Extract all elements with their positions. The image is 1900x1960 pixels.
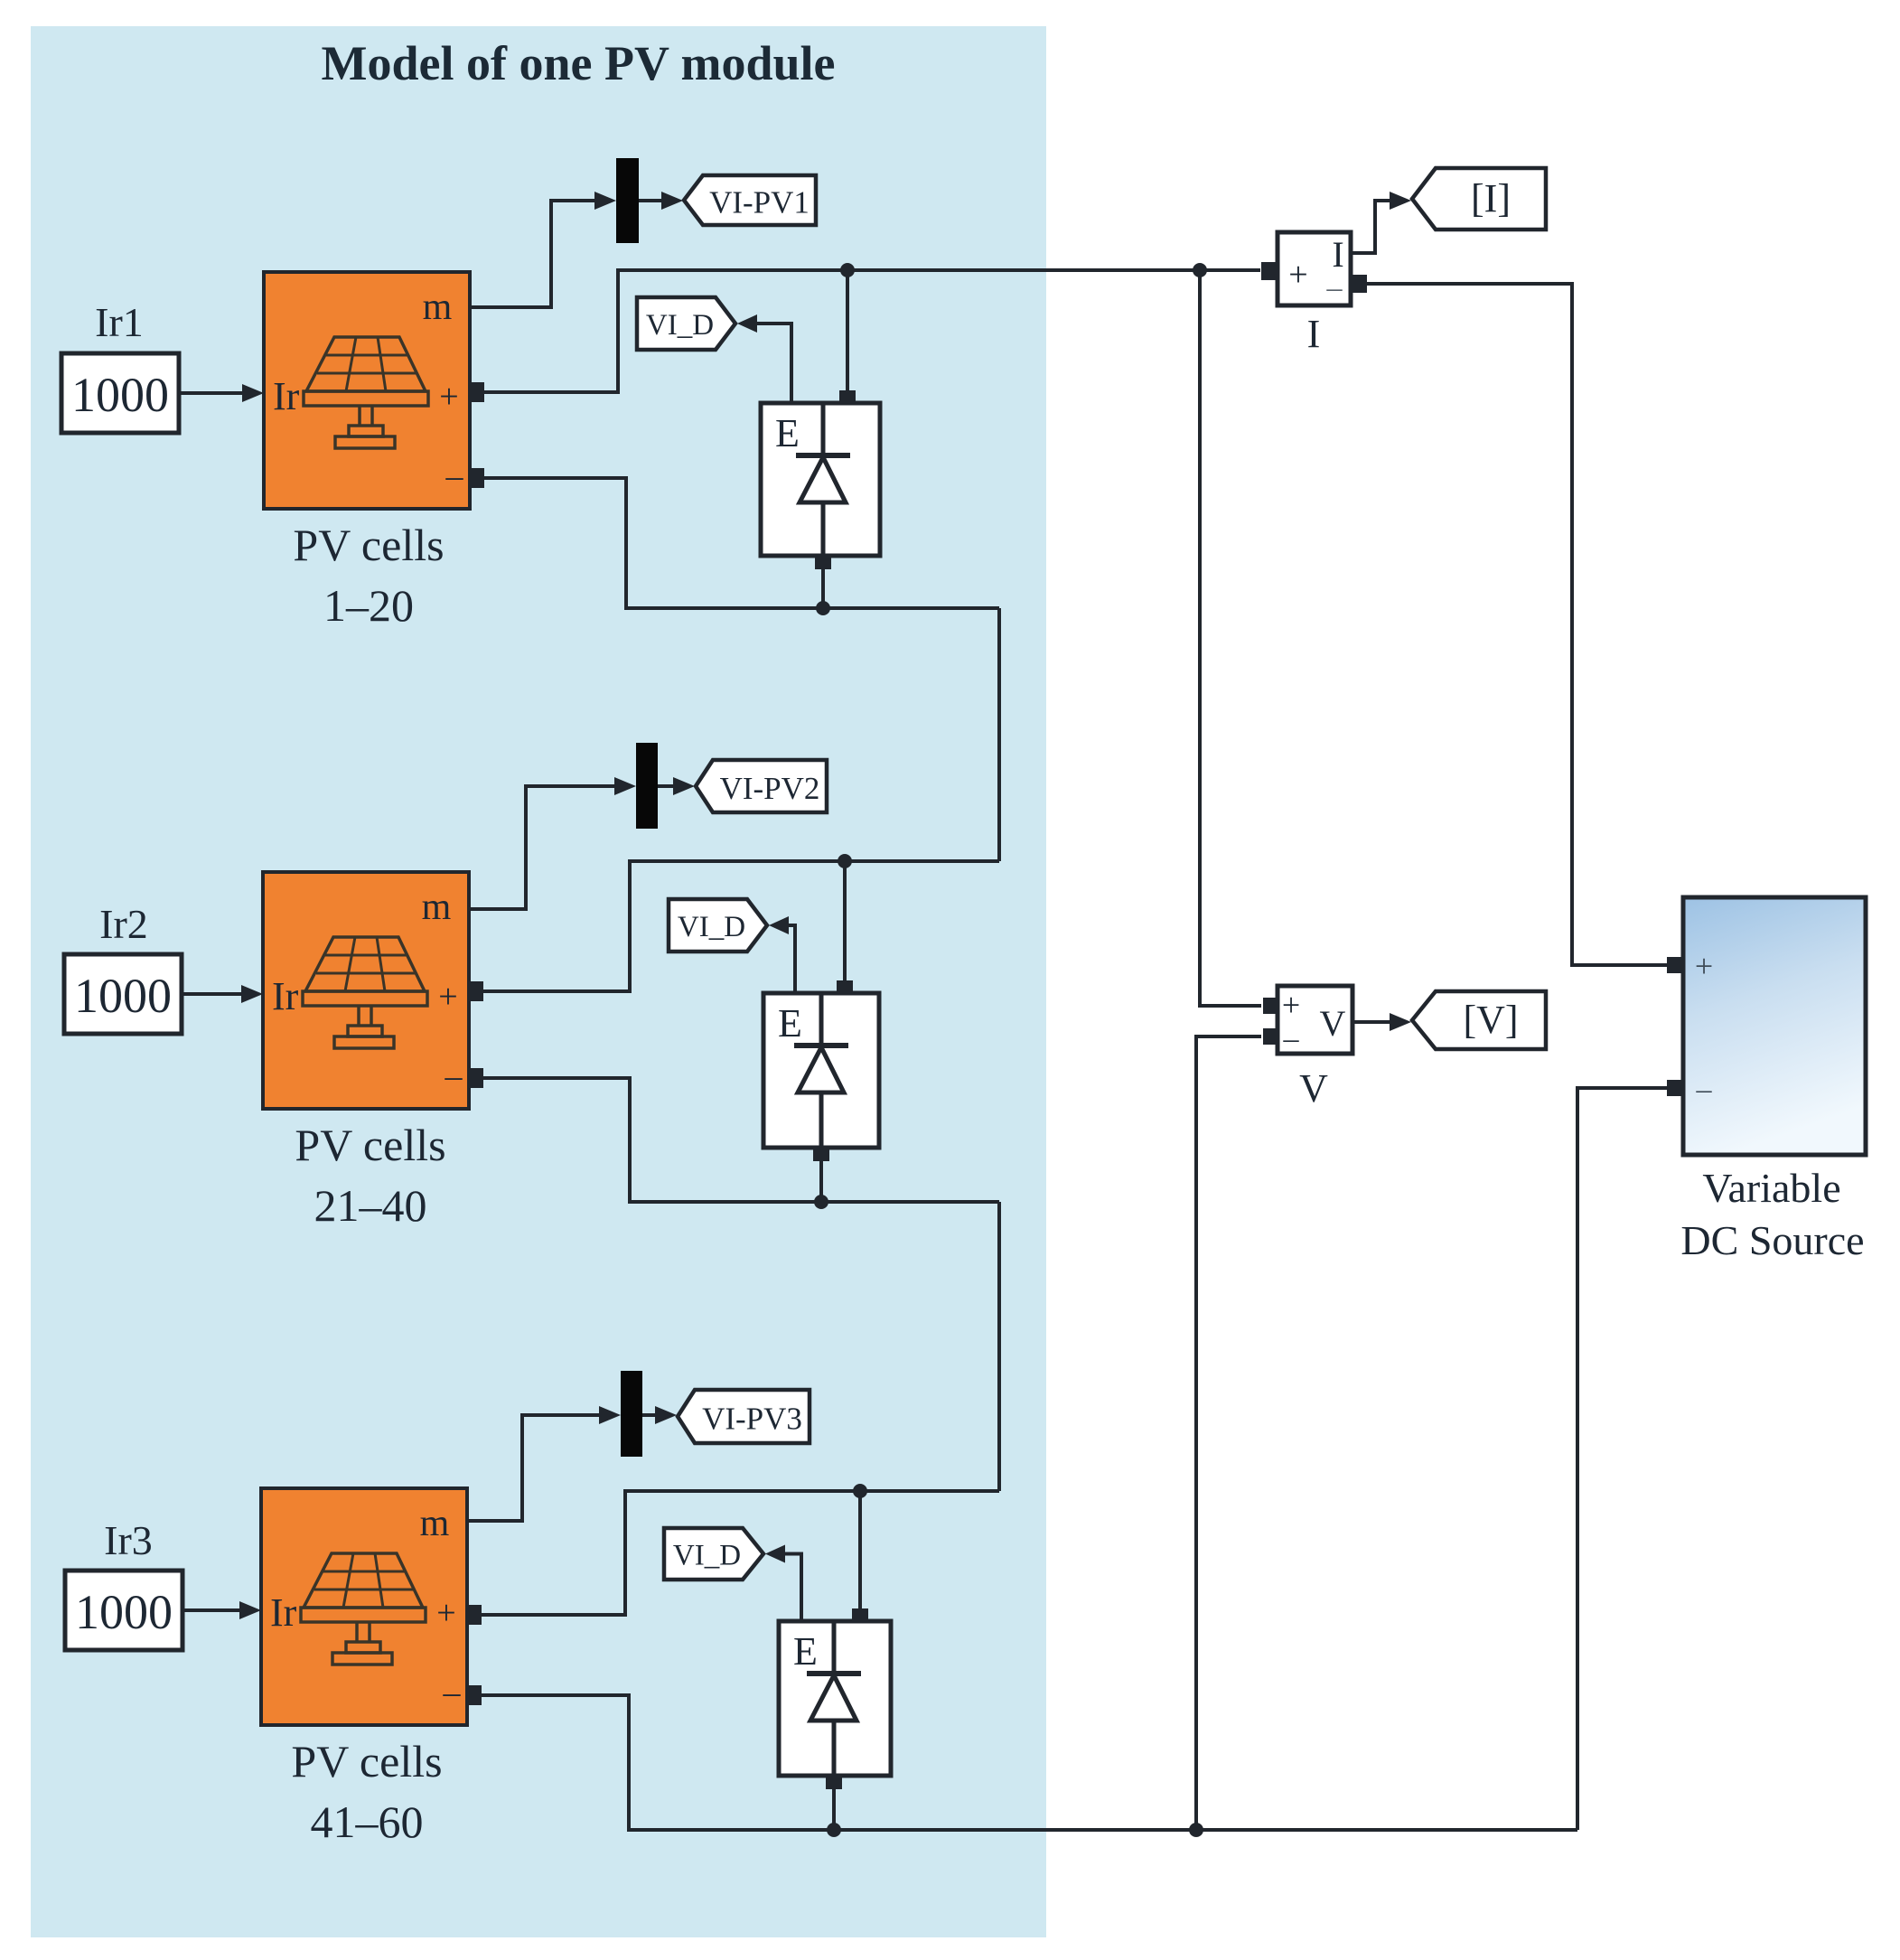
- DC source - port: [1667, 1080, 1683, 1096]
- svg-text:–: –: [1696, 1073, 1713, 1106]
- PV1 solar panel icon: [306, 337, 426, 391]
- svg-text:m: m: [420, 1503, 450, 1544]
- I block + input port: [1261, 262, 1278, 280]
- DC source + port: [1667, 957, 1683, 973]
- constant block Ir2 value 1000: [64, 954, 182, 1034]
- node: diode D1 to negative rail junction: [816, 601, 830, 615]
- PV2 solar panel icon: [305, 937, 425, 991]
- svg-text:m: m: [422, 886, 452, 928]
- svg-text:41–60: 41–60: [311, 1796, 424, 1847]
- svg-text:–: –: [1326, 271, 1343, 305]
- diode D3 (bypass diode block E): [779, 1621, 891, 1776]
- PV2 - port: [468, 1068, 483, 1088]
- svg-text:1000: 1000: [75, 1585, 173, 1639]
- svg-text:–: –: [1283, 1022, 1300, 1055]
- svg-text:+: +: [1282, 987, 1300, 1023]
- node: negative rail tap to voltage measurement: [1189, 1823, 1203, 1837]
- diode D2 (bypass diode block E): [763, 993, 879, 1148]
- diode D2 bottom port: [813, 1147, 829, 1161]
- wire PV1 - port along negative rail: [484, 478, 999, 608]
- V block + input port: [1263, 998, 1278, 1014]
- svg-text:21–40: 21–40: [314, 1180, 427, 1231]
- svg-text:E: E: [793, 1629, 818, 1674]
- wire I block - terminal to DC source + terminal: [1367, 284, 1667, 965]
- goto tag VI_D (2): [669, 899, 767, 952]
- wire I measurement signal to goto tag [I]: [1351, 201, 1392, 253]
- svg-text:[I]: [I]: [1471, 176, 1511, 220]
- node: positive rail tap to voltage measurement: [1193, 263, 1207, 277]
- svg-text:PV cells: PV cells: [295, 1120, 445, 1170]
- node: rail junction to diode D2: [838, 854, 852, 868]
- PV cells block 21&#8211;40 (subsystem PV2): [263, 872, 469, 1109]
- svg-text:I: I: [1332, 234, 1343, 275]
- svg-text:Variable: Variable: [1702, 1165, 1840, 1211]
- diode D2 top port: [837, 980, 853, 994]
- PV1 - port: [469, 468, 484, 488]
- Variable DC Source block: [1683, 897, 1866, 1155]
- svg-text:DC Source: DC Source: [1680, 1217, 1864, 1263]
- wire diode D2 bottom to negative rail: [819, 1161, 823, 1202]
- wire rail down to diode D1 top port: [846, 270, 849, 403]
- PV module subsystem shaded area: [31, 26, 1046, 1937]
- goto tag VI-PV2: [696, 760, 827, 812]
- svg-text:1000: 1000: [74, 969, 172, 1023]
- wire PV1 m output to mux bar: [470, 201, 598, 307]
- PV3 - port: [466, 1685, 482, 1705]
- wire diode D1 m output to VI_D tag: [755, 324, 791, 403]
- goto tag VI_D (1): [637, 297, 735, 350]
- svg-text:V: V: [1299, 1066, 1328, 1111]
- goto tag VI-PV1: [684, 175, 816, 225]
- node: diode D3 to negative rail junction: [827, 1823, 841, 1837]
- svg-text:+: +: [1695, 948, 1713, 984]
- current measurement block I: [1278, 232, 1351, 305]
- PV1 + port: [469, 382, 484, 402]
- mux bar M2: [636, 743, 658, 829]
- wire positive rail down to V measurement + input: [1200, 270, 1261, 1006]
- wire mux M1 to goto tag VI-PV1: [639, 199, 666, 202]
- voltage measurement block V: [1278, 986, 1352, 1054]
- diode D3 top port: [852, 1608, 868, 1622]
- svg-text:VI-PV3: VI-PV3: [702, 1402, 802, 1437]
- svg-text:+: +: [1288, 256, 1307, 294]
- svg-text:PV cells: PV cells: [293, 520, 444, 570]
- svg-text:–: –: [443, 1674, 462, 1711]
- wire mux M3 to goto tag VI-PV3: [642, 1413, 660, 1417]
- svg-text:Ir2: Ir2: [99, 901, 148, 947]
- constant block Ir1 value 1000: [61, 353, 179, 433]
- wire diode D3 bottom to negative rail: [832, 1789, 836, 1830]
- I block - output port: [1351, 275, 1367, 293]
- wire PV2 m output to mux bar: [469, 786, 618, 909]
- wire diode D3 m output to VI_D tag: [783, 1554, 801, 1622]
- svg-text:PV cells: PV cells: [291, 1736, 442, 1787]
- mux bar M3: [621, 1371, 642, 1457]
- svg-text:+: +: [438, 978, 457, 1016]
- svg-text:1–20: 1–20: [323, 580, 414, 631]
- wire PV3 m output to mux bar: [467, 1415, 603, 1521]
- PV cells block 1&#8211;20 (subsystem PV1): [264, 272, 470, 509]
- svg-text:I: I: [1307, 312, 1321, 356]
- wire diode D2 m output to VI_D tag: [787, 925, 795, 993]
- PV3 + port: [466, 1605, 482, 1625]
- svg-text:V: V: [1320, 1003, 1346, 1044]
- wire V measurement - input down to negative rail: [1196, 1036, 1261, 1830]
- svg-text:+: +: [436, 1594, 455, 1632]
- svg-text:Ir: Ir: [273, 374, 300, 418]
- wire series link module2 negative rail to module3 positive rail: [997, 1202, 1001, 1491]
- svg-text:[V]: [V]: [1463, 998, 1518, 1042]
- svg-text:–: –: [445, 457, 464, 495]
- svg-text:Ir: Ir: [270, 1590, 297, 1635]
- wire Ir1 constant to PV cells Ir port: [179, 391, 246, 395]
- wire rail down to diode D2 top port: [843, 861, 847, 993]
- diode D3 bottom port: [826, 1775, 842, 1789]
- wire PV2 + port to positive rail: [483, 861, 999, 991]
- svg-text:E: E: [778, 1001, 802, 1046]
- wire series link module1 negative rail to module2 positive rail: [997, 608, 1001, 861]
- V block - input port: [1263, 1028, 1278, 1045]
- svg-text:Ir: Ir: [272, 974, 299, 1018]
- node: rail junction to diode D1: [840, 263, 855, 277]
- svg-text:m: m: [423, 286, 453, 328]
- constant block Ir3 value 1000: [65, 1571, 183, 1650]
- goto tag VI-PV3: [678, 1390, 810, 1443]
- wire V measurement signal to goto tag [V]: [1352, 1020, 1392, 1024]
- wire PV3 + port to positive rail: [482, 1491, 999, 1615]
- wire diode D1 bottom to negative rail: [821, 569, 825, 608]
- goto tag [V]: [1412, 991, 1546, 1049]
- diode D1 top port: [839, 390, 856, 404]
- wire PV1 + port to positive rail: [484, 270, 1260, 392]
- PV3 solar panel icon: [304, 1553, 423, 1608]
- node: diode D2 to negative rail junction: [814, 1195, 828, 1209]
- node: rail junction to diode D3: [853, 1484, 867, 1498]
- wire rail down to diode D3 top port: [858, 1491, 862, 1621]
- svg-text:Ir1: Ir1: [95, 299, 144, 345]
- PV2 + port: [468, 981, 483, 1001]
- wire Ir3 constant to PV cells Ir port: [183, 1608, 243, 1612]
- svg-text:E: E: [775, 411, 800, 455]
- goto tag [I]: [1412, 168, 1546, 230]
- svg-text:+: +: [439, 378, 458, 416]
- svg-text:–: –: [445, 1057, 463, 1095]
- svg-text:VI_D: VI_D: [678, 911, 745, 943]
- wire PV2 - port along negative rail: [483, 1078, 999, 1202]
- svg-text:1000: 1000: [71, 368, 169, 422]
- wire mux M2 to goto tag VI-PV2: [658, 784, 678, 788]
- svg-text:VI_D: VI_D: [673, 1540, 741, 1572]
- wire negative rail up to DC source - terminal: [1577, 1088, 1667, 1830]
- svg-text:VI_D: VI_D: [646, 309, 714, 342]
- mux bar M1: [616, 158, 639, 243]
- wire PV3 - port along negative rail: [482, 1695, 1577, 1830]
- wire Ir2 constant to PV cells Ir port: [182, 992, 245, 996]
- svg-text:Model of one PV module: Model of one PV module: [322, 36, 836, 90]
- svg-text:VI-PV1: VI-PV1: [709, 185, 810, 220]
- diode D1 (bypass diode block E): [761, 403, 880, 556]
- goto tag VI_D (3): [664, 1528, 763, 1580]
- PV cells block 41&#8211;60 (subsystem PV3): [261, 1488, 467, 1725]
- svg-text:Ir3: Ir3: [104, 1517, 153, 1563]
- diode D1 bottom port: [815, 555, 831, 569]
- svg-text:VI-PV2: VI-PV2: [720, 771, 820, 806]
